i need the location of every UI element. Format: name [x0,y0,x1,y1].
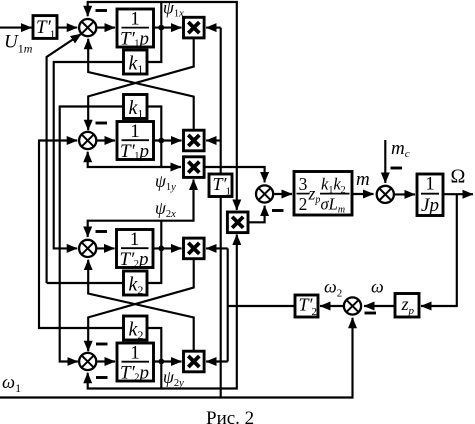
svg-text:Рис. 2: Рис. 2 [206,408,254,424]
wire X3 output down-diagonal to sum4 top (minus) [88,259,194,352]
block 3/2 zp k1k2/(sigma Lm) torque gain [294,172,352,216]
wire sum4 to block row4 [98,360,116,362]
block k2 row4 [124,316,148,340]
block T'2 slip gain [295,295,318,317]
minus at omega sum right [365,312,377,315]
wire node psi2x down to k2 row3 [147,248,161,283]
vertical T'1w1 distribution up to X1 and X2a [220,28,222,174]
svg-text:m: m [356,169,370,190]
vertical omega1 up to T'1 gain [220,197,222,398]
svg-text:1: 1 [425,174,435,195]
wire zp out to omega sum (minus) [364,305,395,307]
wire sum1 to block 1/T'1p [97,27,115,29]
svg-text:ψ2y: ψ2y [163,367,184,389]
wire mc input arrow [384,140,386,183]
wire block3 out to mult X3 with node psi2x [153,247,182,249]
wire X3b output right then up into torque sum bottom (minus) [248,206,265,223]
block 1/Jp [417,174,443,216]
wire psi1x to X3b: top line right then down [161,2,237,210]
wire Omega feedback down to zp [421,194,457,306]
wire psi1y right into X2b [161,166,181,168]
svg-text:1: 1 [130,343,140,364]
wire torque sum to gain block [274,193,292,195]
svg-text:ψ1y: ψ1y [155,171,176,193]
block 1/(T'2p) row4 [117,343,154,381]
wire psi2y right along self line then up into X3b bottom [161,235,237,389]
wire T'2w2 into X4a right [206,360,228,362]
wire X2a output up-diagonal into sum1 bottom [88,39,194,130]
svg-text:mc: mc [391,138,410,160]
svg-text:Ω: Ω [451,166,466,188]
wire node psi1y up to k1 row2 [147,107,161,141]
sum junction 4 [79,353,96,370]
block T'1 input gain [33,16,57,39]
wire k2 row4 output: left, up trunk, into sum2 left [39,141,124,329]
block T'1 gain (middle) [209,174,232,197]
wire Omega output [443,193,473,195]
svg-text:3: 3 [299,174,308,194]
wire node psi1x down to k1 row1 [147,28,161,62]
wire psi2x up into X2b bottom input [161,180,193,221]
svg-text:ω1: ω1 [2,373,21,395]
sum junction load [377,186,394,203]
sum junction 3 [79,240,96,257]
mult X4a (psi2y * T'2w2) [184,351,205,372]
wire k1 row1 output left then down to sum3 left input [54,62,124,248]
wire T'2w2 into X3 right [206,247,228,249]
wire X2b output right to torque sum top [204,167,265,182]
vertical T'2w2 distribution to X3 and X4a [227,248,229,361]
svg-text:U1m: U1m [4,32,33,56]
wire k1 row2 output left then down to sum4 left input [60,107,124,362]
svg-text:1: 1 [130,9,140,30]
wire block4 out to mult X4a with node psi2y [153,360,182,362]
block k1 row2 [124,95,148,119]
wire T'2 out left to omega2 vertical [228,305,295,307]
wire m to load sum [352,193,374,195]
block zp [395,294,419,318]
wire sum2 to block row2 [97,139,115,141]
svg-text:T′2p: T′2p [120,249,149,270]
wire psi2y self feedback: node down, left, up into sum4 bottom minus [88,362,162,389]
minus sign at torque sum bottom [272,209,284,212]
svg-text:T′1p: T′1p [120,141,149,162]
wire T'1 to sum 1 [57,27,77,29]
wire psi1y down to self feedback and X2b left [88,141,162,168]
wire T'1w1 vertical into X1 right [206,27,221,29]
block 1/(T'1p) row2 [117,122,154,160]
minus sign at sum4 bottom [96,376,108,379]
wire psi2x self feedback: node up, left, down into sum3 top minus [88,221,162,249]
wire block1 out to mult X1 with node psi1x [154,27,182,29]
node psi2x [158,246,164,252]
wire X1 output down-diagonal to sum2 top (minus) [88,38,194,130]
wire X4a output up-diagonal into sum3 bottom [88,260,194,352]
minus sign at sum2 top [96,122,108,125]
mult X3 (psi2x * T'2w2) [184,238,205,259]
node psi2y [158,359,164,365]
node psi1y [158,138,164,144]
svg-text:1: 1 [130,229,140,250]
wire omega1 long line [0,318,353,398]
block 1/(T'2p) row3 [117,230,154,268]
svg-text:ω: ω [371,277,384,297]
sum junction 1 [79,19,96,36]
wire T'1w1 into X2a right [206,139,221,141]
svg-text:ω2: ω2 [324,277,342,300]
mult X3b (psi1x * psi2y) torque term [227,212,248,233]
sum junction torque [256,185,273,202]
diagonal k2psi2x arrow into sum1 lower-left [47,34,82,283]
wire sum3 to block row3 [97,247,115,249]
wire omega sum out to T'2 gain [320,305,343,307]
block k1 row1 [124,50,148,74]
wire psi1x self feedback top: node up, left, down into sum1 minus [88,2,162,28]
svg-text:2: 2 [299,194,308,214]
node psi1x [158,25,164,31]
svg-text:Jp: Jp [421,195,439,216]
block 1/(T'1p) row1 [117,9,154,47]
wire node psi2y up to k2 row4 [147,328,161,362]
mult X2b (psi1y * psi2x) torque term [184,157,205,178]
minus sign at sum4 top [96,343,108,346]
sum junction omega (slip) [344,297,361,314]
wire k2 row3 output left to trunk (up to sum1 diagonal) [47,282,124,284]
minus sign at sum1 top [96,9,108,12]
svg-text:ψ2x: ψ2x [155,198,176,220]
input arrow U1m [0,27,32,29]
minus at load sum top [391,167,403,170]
wire block2 out to mult X2a with node psi1y [154,139,182,141]
svg-text:T′2p: T′2p [120,363,149,384]
svg-text:T′1p: T′1p [120,29,149,50]
minus sign at sum3 top [96,230,108,233]
mult X2a (psi1y * T'1w1) [184,130,205,151]
wire load sum to 1/Jp [395,193,415,195]
svg-text:1: 1 [130,121,140,142]
block k2 row3 [124,271,148,295]
sum junction 2 [79,132,96,149]
mult X1 (psi1x * T'1w1) [184,17,205,38]
